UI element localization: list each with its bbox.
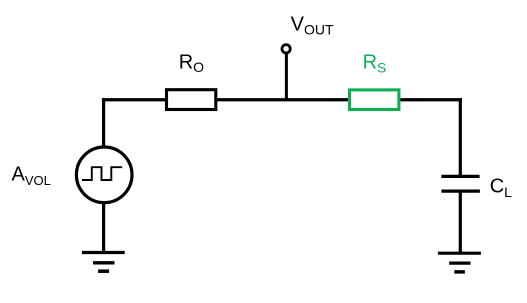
svg-text:RS: RS bbox=[363, 52, 387, 76]
svg-text:VOUT: VOUT bbox=[291, 13, 334, 37]
svg-text:RO: RO bbox=[179, 51, 204, 75]
svg-text:AVOL: AVOL bbox=[12, 164, 51, 189]
svg-text:CL: CL bbox=[490, 176, 512, 200]
